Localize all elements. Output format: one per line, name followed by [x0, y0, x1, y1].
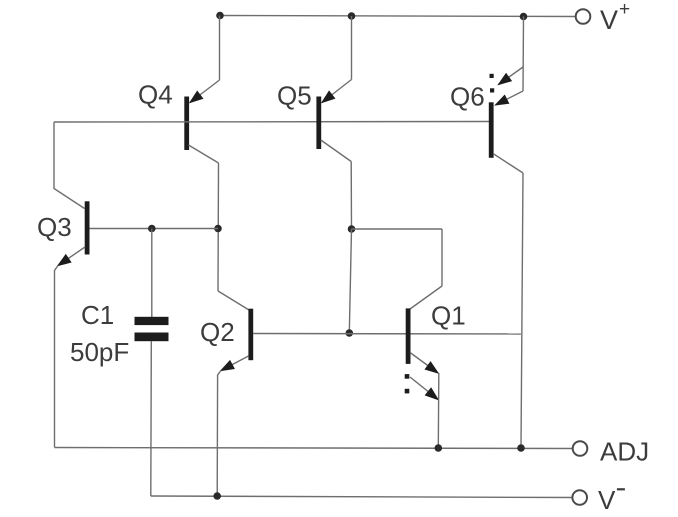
wire Q6 emitter vertical: [522, 17, 525, 92]
wire Q6 upper emitter diagonal with arrow: [499, 67, 524, 85]
svg-text:Q4: Q4: [138, 80, 173, 110]
Q6 multiple-emitter ellipsis dot lower: [490, 88, 494, 92]
wire Q1 collector diagonal: [410, 286, 442, 309]
wire Q1 upper emitter diagonal with arrow: [410, 353, 438, 374]
terminal V+: [576, 9, 591, 24]
transistor Q1 base bar: [406, 308, 411, 364]
wire Q6 collector vertical to ADJ: [521, 173, 523, 448]
svg-text:50pF: 50pF: [70, 337, 129, 367]
Q6 multiple-emitter ellipsis dot upper: [490, 74, 494, 78]
label V- superscript minus: [617, 488, 625, 490]
wire Q2 emitter diagonal with arrow: [221, 356, 249, 371]
wire Q5 collector vertical: [350, 162, 352, 230]
node dot C1 junction: [148, 225, 156, 233]
svg-text:V: V: [600, 5, 618, 35]
wire V- rail: [151, 496, 573, 498]
node dot ADJ / Q6 collector: [517, 444, 525, 452]
wire Q4 emitter diagonal with arrow: [190, 80, 220, 103]
transistor Q3 base bar: [85, 201, 90, 254]
svg-text:+: +: [619, 0, 630, 20]
wire Q4 collector diagonal: [189, 145, 219, 163]
node dot top rail / Q4 emitter: [216, 12, 224, 20]
wire Q6 collector diagonal: [493, 154, 523, 174]
svg-text:Q2: Q2: [200, 317, 235, 347]
Q1 multiple-emitter ellipsis dot lower: [405, 389, 410, 394]
svg-text:V: V: [598, 485, 616, 515]
wire Q1 lower emitter diagonal with arrow: [410, 377, 438, 400]
node dot Q3 base junction: [214, 225, 222, 233]
wire Q1 collector branch horizontal: [352, 228, 443, 230]
wire V+ top rail: [220, 16, 576, 17]
svg-text:Q3: Q3: [37, 212, 72, 242]
wire C1 bottom lead to V- rail: [150, 341, 153, 496]
wire Q3 collector riser (left): [54, 122, 85, 209]
wire Q3 base line: [90, 228, 219, 230]
transistor Q5 base bar: [316, 97, 321, 150]
wire Q3 emitter to ADJ rail: [55, 266, 59, 448]
node dot V- / Q2 emitter: [213, 492, 221, 500]
svg-text:C1: C1: [81, 300, 114, 330]
wire Q2/Q1 base line: [253, 333, 521, 336]
node dot ADJ / Q1 emitter: [435, 444, 443, 452]
wire Q5 emitter vertical: [351, 16, 353, 80]
Q1 multiple-emitter ellipsis dot upper: [405, 374, 410, 379]
wire Q1 emitter vertical to ADJ: [437, 373, 440, 448]
wire Q2 emitter to V- rail: [217, 371, 221, 497]
capacitor C1 bottom plate: [135, 333, 169, 342]
capacitor C1 top plate: [135, 317, 169, 325]
terminal V-: [572, 490, 587, 505]
wire base line Q4-Q5-Q6: [54, 121, 490, 124]
svg-text:Q5: Q5: [277, 81, 312, 111]
wire Q1 collector branch vertical: [441, 229, 443, 286]
svg-text:Q6: Q6: [450, 82, 485, 112]
wire Q5 emitter diagonal with arrow: [322, 80, 352, 103]
wire Q5 collector to Q2/Q1 base: [349, 229, 351, 333]
wire Q2 collector diagonal: [218, 291, 249, 310]
node dot top rail / Q6 emitter: [520, 13, 528, 21]
terminal ADJ: [573, 441, 588, 456]
wire C1 top lead: [151, 229, 153, 318]
transistor Q4 base bar: [184, 97, 189, 151]
node dot Q5 collector junction: [348, 225, 356, 233]
node dot top rail / Q5 emitter: [348, 12, 356, 20]
svg-text:ADJ: ADJ: [600, 437, 649, 467]
wire Q4 emitter vertical: [219, 16, 221, 81]
wire Q4 collector vertical to Q2: [217, 163, 220, 291]
wire Q6 lower emitter diagonal with arrow: [496, 91, 524, 105]
wire ADJ rail: [55, 448, 573, 449]
node dot Q2/Q1 base junction: [346, 329, 354, 337]
wire Q3 emitter diagonal with arrow: [58, 247, 85, 266]
wire Q5 collector diagonal: [321, 140, 351, 162]
svg-text:Q1: Q1: [431, 301, 466, 331]
transistor Q2 base bar: [248, 309, 253, 361]
transistor Q6 base bar: [489, 102, 494, 158]
